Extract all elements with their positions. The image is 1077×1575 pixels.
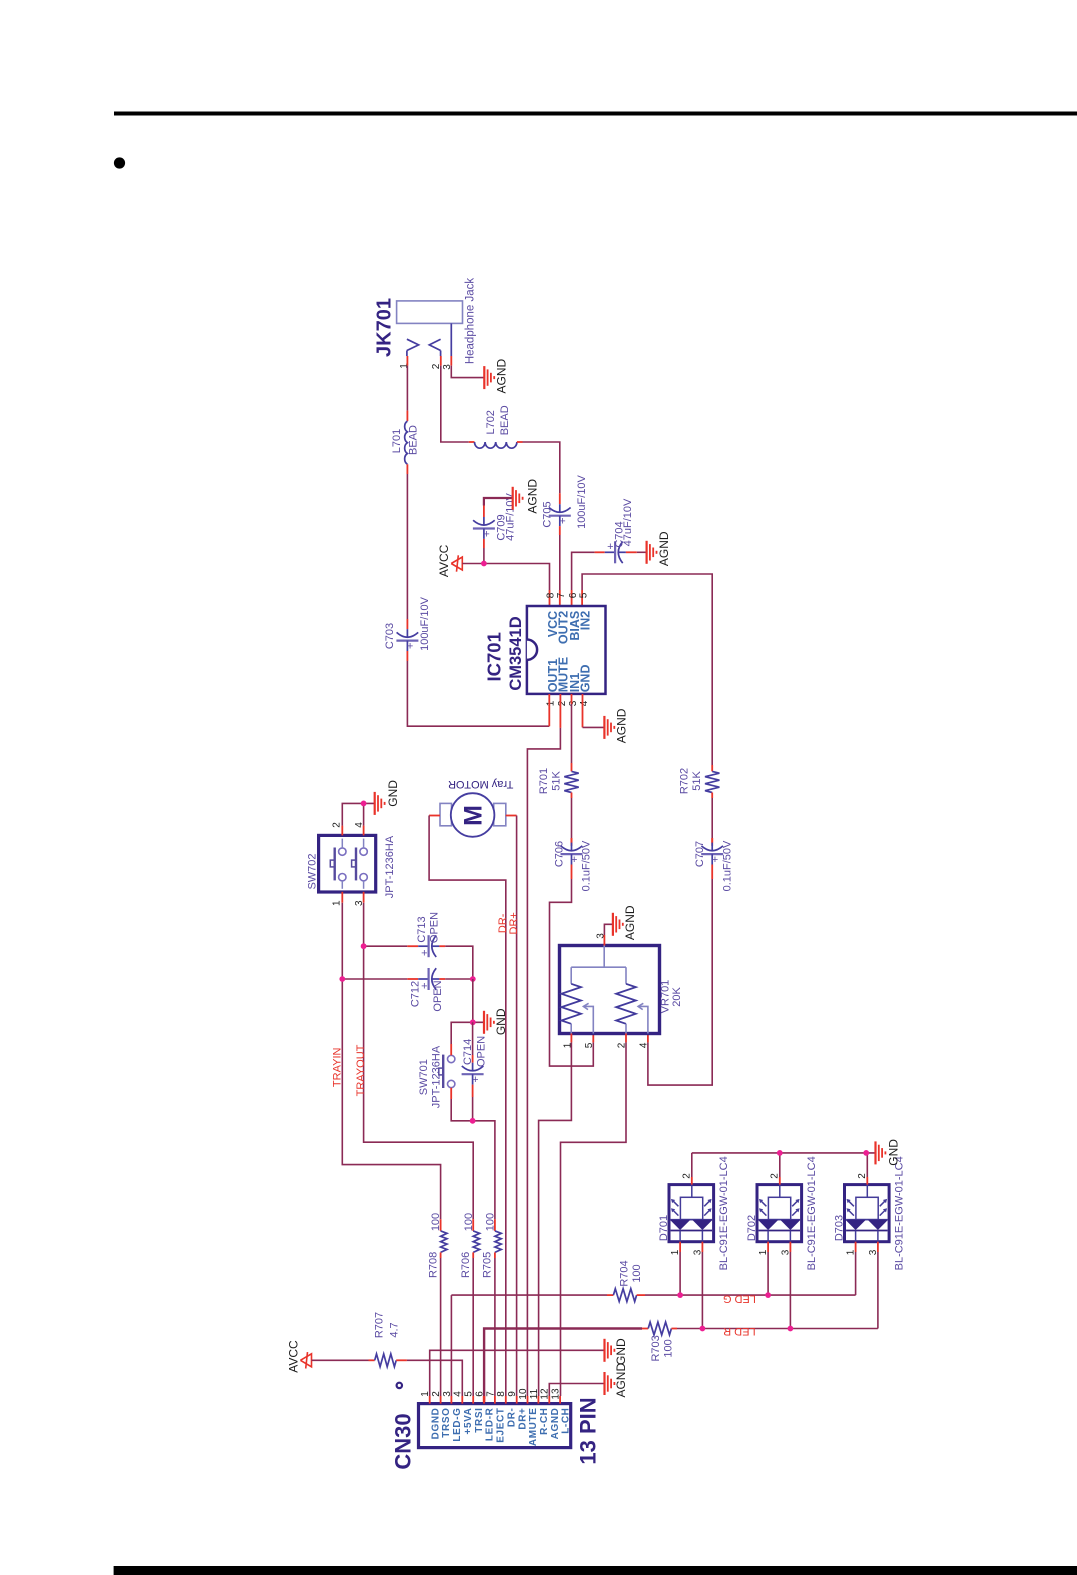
svg-text:SW702: SW702 xyxy=(307,853,319,889)
wire C703 to IC pin1 xyxy=(407,661,549,726)
svg-text:BL-C91E-EGW-01-LC4: BL-C91E-EGW-01-LC4 xyxy=(894,1156,906,1270)
IC pin4 to AGND xyxy=(582,694,584,727)
LED D703 BL-C91E-EGW-01-LC4 xyxy=(845,1185,890,1242)
CN30 pin 9 DR+ xyxy=(516,1396,518,1404)
svg-text:DR+: DR+ xyxy=(508,912,520,934)
LED cathode bus to GND xyxy=(692,1152,875,1154)
svg-text:LED-G: LED-G xyxy=(452,1408,463,1442)
wire jack pin1 down xyxy=(406,366,408,411)
svg-text:C713: C713 xyxy=(416,916,428,942)
svg-text:2: 2 xyxy=(770,1173,781,1179)
svg-text:AVCC: AVCC xyxy=(437,544,451,577)
capacitor C705 100uF/10V xyxy=(559,493,561,504)
svg-text:1: 1 xyxy=(332,900,343,906)
svg-text:GND: GND xyxy=(886,1139,900,1166)
connector CN30 13 PIN xyxy=(419,1404,571,1448)
svg-text:D701: D701 xyxy=(658,1215,670,1241)
svg-text:1: 1 xyxy=(846,1249,857,1255)
wire C707 to VR701 pin4 xyxy=(711,872,713,879)
svg-text:TRAYIN: TRAYIN xyxy=(332,1047,344,1087)
LED pin wires xyxy=(691,1177,693,1185)
CN30 pin 10 AMUTE xyxy=(527,1396,529,1404)
svg-text:3: 3 xyxy=(781,1249,792,1255)
potentiometer VR701 20K xyxy=(560,946,660,1034)
wire pin1 DGND to GND xyxy=(430,1350,604,1396)
svg-text:3: 3 xyxy=(568,700,579,706)
svg-text:IC701: IC701 xyxy=(484,632,505,681)
wire R702 to C707 xyxy=(711,798,713,838)
VR701 wipers xyxy=(583,1006,593,1033)
svg-text:L-CH: L-CH xyxy=(561,1408,572,1434)
svg-text:R701: R701 xyxy=(538,768,550,794)
svg-text:100uF/10V: 100uF/10V xyxy=(576,474,588,528)
svg-text:+: + xyxy=(407,640,413,652)
svg-text:100: 100 xyxy=(631,1264,643,1282)
svg-text:C707: C707 xyxy=(694,841,706,867)
svg-text:CN30: CN30 xyxy=(391,1413,416,1469)
wire jack pin2 down to L702 xyxy=(441,366,469,442)
ground GND (LEDs) xyxy=(874,1141,876,1164)
svg-text:100uF/10V: 100uF/10V xyxy=(419,596,431,650)
svg-text:TRSO: TRSO xyxy=(441,1408,452,1438)
svg-text:6: 6 xyxy=(568,592,579,598)
svg-text:7: 7 xyxy=(556,592,567,598)
svg-text:EJECT: EJECT xyxy=(496,1408,507,1443)
resistor R702 51K xyxy=(705,771,719,792)
SW702 pin3 TRAYOUT down xyxy=(363,892,365,903)
svg-text:51K: 51K xyxy=(551,771,563,791)
wire LED-G pin3 + R704 xyxy=(450,1295,452,1396)
svg-text:100: 100 xyxy=(485,1213,497,1231)
svg-text:AVCC: AVCC xyxy=(286,1340,300,1373)
svg-text:13: 13 xyxy=(551,1388,562,1400)
IC pin1 stub xyxy=(548,694,550,726)
wire IC pin6 to C704 xyxy=(571,590,573,606)
capacitor C714 OPEN xyxy=(472,1055,474,1063)
svg-text:AGND: AGND xyxy=(657,531,671,566)
op-amp IC701 CM3541D xyxy=(527,606,606,694)
svg-text:47uF/10V: 47uF/10V xyxy=(622,498,634,546)
svg-text:5: 5 xyxy=(579,592,590,598)
ground AGND (IC701 pin4) xyxy=(603,716,605,739)
wire TRAYOUT to C713 xyxy=(364,945,408,947)
svg-text:DGND: DGND xyxy=(430,1408,441,1440)
svg-text:TRSI: TRSI xyxy=(474,1408,485,1433)
IC pin3 wire xyxy=(571,694,573,704)
CN30 pin 4 +5VA xyxy=(461,1396,463,1404)
svg-text:8: 8 xyxy=(546,592,557,598)
CN30 pin 6 LED-R xyxy=(483,1396,485,1404)
svg-text:TRAYOUT: TRAYOUT xyxy=(355,1044,367,1096)
VR701 pin3 to AGND xyxy=(603,935,605,946)
ground GND (SW702) xyxy=(374,792,376,815)
CN30 pin 2 TRSO xyxy=(440,1396,442,1404)
svg-text:LED G: LED G xyxy=(723,1293,756,1305)
svg-text:100: 100 xyxy=(463,1213,475,1231)
power AVCC (bottom) xyxy=(300,1354,311,1367)
svg-text:2: 2 xyxy=(557,700,568,706)
wire C713 to junction xyxy=(445,946,473,979)
VR701 internal network xyxy=(603,946,605,968)
wire caps to GND node xyxy=(472,979,474,1022)
svg-text:JPT-1236HA: JPT-1236HA xyxy=(384,835,396,898)
svg-text:4: 4 xyxy=(453,1391,464,1397)
wire IC pin2 MUTE to CN30 pin10 xyxy=(559,694,561,728)
wire IC pin5 to R702 xyxy=(581,590,583,606)
ground AGND (C709) xyxy=(512,487,514,510)
capacitor C707 0.1uF/50V xyxy=(711,838,713,843)
svg-text:6: 6 xyxy=(474,1391,485,1397)
CN30 pin 12 AGND xyxy=(548,1396,550,1404)
svg-text:+: + xyxy=(421,948,427,960)
capacitor C703 100uF/10V xyxy=(406,619,408,629)
svg-text:100: 100 xyxy=(662,1339,674,1357)
SW701 bottom + C714 to R705 xyxy=(450,1088,452,1099)
svg-text:R706: R706 xyxy=(460,1252,472,1278)
svg-text:GND: GND xyxy=(494,1008,508,1035)
resistor R706 100 xyxy=(472,1219,474,1231)
wire R707 to pin4 xyxy=(407,1360,462,1396)
svg-text:C714: C714 xyxy=(462,1039,474,1065)
svg-text:IN2: IN2 xyxy=(579,611,593,631)
svg-text:C703: C703 xyxy=(384,623,396,649)
svg-text:AMUTE: AMUTE xyxy=(528,1408,539,1447)
svg-text:DR-: DR- xyxy=(506,1408,517,1428)
svg-text:AGND: AGND xyxy=(615,708,629,743)
svg-text:9: 9 xyxy=(507,1391,518,1397)
bullet xyxy=(114,157,125,168)
resistor R704 100 xyxy=(613,1289,636,1302)
svg-text:47uF/10V: 47uF/10V xyxy=(504,492,516,540)
SW701 top to GND xyxy=(450,1044,452,1055)
svg-text:DR-: DR- xyxy=(497,913,509,933)
ground GND (CN30) xyxy=(603,1339,605,1362)
CN30 pin 8 DR- xyxy=(505,1396,507,1404)
capacitor C712 OPEN xyxy=(407,978,418,980)
wire pin12 to AGND xyxy=(549,1384,604,1397)
resistor R707 4.7 xyxy=(375,1354,397,1367)
svg-text:AGND: AGND xyxy=(614,1363,628,1398)
svg-text:SW701: SW701 xyxy=(418,1059,430,1095)
svg-text:R705: R705 xyxy=(482,1252,494,1278)
wire LED-R pin6 + R703 xyxy=(483,1396,486,1404)
LED pin wires xyxy=(866,1177,868,1185)
svg-text:DR+: DR+ xyxy=(517,1408,528,1430)
CN30 pin 13 L-CH xyxy=(559,1396,561,1404)
svg-text:R708: R708 xyxy=(427,1252,439,1278)
svg-text:5: 5 xyxy=(464,1391,475,1397)
svg-text:GND: GND xyxy=(614,1338,628,1365)
svg-text:+: + xyxy=(712,854,718,866)
switch SW702 JPT-1236HA xyxy=(319,835,376,892)
resistor R701 51K xyxy=(564,771,578,792)
svg-text:R-CH: R-CH xyxy=(539,1408,550,1435)
inductor L702 BEAD xyxy=(475,442,517,448)
wire C709 top to AGND xyxy=(484,498,512,506)
pin stubs JK701 xyxy=(406,356,408,366)
svg-text:51K: 51K xyxy=(691,771,703,791)
resistor R705 100 xyxy=(494,1219,496,1231)
svg-text:5: 5 xyxy=(584,1042,595,1048)
svg-text:1: 1 xyxy=(546,700,557,706)
svg-text:JPT-1236HA: JPT-1236HA xyxy=(430,1045,442,1108)
wire C712 to junction xyxy=(445,978,473,980)
svg-text:1: 1 xyxy=(420,1391,431,1397)
tray motor M xyxy=(440,803,452,825)
svg-text:100: 100 xyxy=(430,1213,442,1231)
wire AVCC to IC pin8 xyxy=(462,564,549,591)
svg-text:2: 2 xyxy=(857,1173,868,1179)
CN30 pin 11 R-CH xyxy=(537,1396,539,1404)
switch SW701 JPT-1236HA xyxy=(448,1055,455,1062)
wire jack pin3 to AGND xyxy=(451,366,483,378)
svg-text:JK701: JK701 xyxy=(373,298,395,357)
svg-text:7: 7 xyxy=(485,1391,496,1397)
svg-text:OPEN: OPEN xyxy=(432,980,444,1011)
wire L702 to C705/pin7 xyxy=(523,442,560,493)
wire R701 to C706 xyxy=(571,798,573,838)
svg-text:LED-R: LED-R xyxy=(485,1407,496,1441)
wire L701 to C703 xyxy=(406,474,408,619)
svg-text:4: 4 xyxy=(639,1042,650,1048)
svg-text:BL-C91E-EGW-01-LC4: BL-C91E-EGW-01-LC4 xyxy=(806,1156,818,1270)
svg-text:+: + xyxy=(421,980,427,992)
svg-text:VR701: VR701 xyxy=(660,980,672,1014)
svg-text:3: 3 xyxy=(868,1249,879,1255)
SW702 pin2/4 to GND xyxy=(341,826,343,836)
svg-text:13 PIN: 13 PIN xyxy=(576,1397,601,1464)
svg-text:2: 2 xyxy=(682,1173,693,1179)
junction dots LED G / LED R xyxy=(677,1292,683,1298)
CN30 pin 5 TRSI xyxy=(472,1396,474,1404)
svg-text:C706: C706 xyxy=(554,841,566,867)
top rule xyxy=(114,112,1077,116)
CN30 polarity mark xyxy=(397,1383,402,1388)
SW702 pin1 TRAYIN down xyxy=(341,892,343,903)
CN30 pin 3 LED-G xyxy=(450,1396,452,1404)
ground AGND (VR701) xyxy=(612,913,614,936)
svg-text:4.7: 4.7 xyxy=(389,1322,401,1337)
ground AGND (CN30) xyxy=(603,1372,605,1395)
svg-text:D703: D703 xyxy=(834,1215,846,1241)
svg-text:R703: R703 xyxy=(650,1335,662,1361)
svg-text:+: + xyxy=(472,1074,478,1086)
svg-text:AGND: AGND xyxy=(495,358,509,393)
motor stubs xyxy=(429,815,440,817)
wire C706 to VR701 pin5 xyxy=(571,872,573,879)
svg-text:2: 2 xyxy=(332,822,343,828)
CN30 pin 7 EJECT xyxy=(494,1396,496,1404)
svg-text:0.1uF/50V: 0.1uF/50V xyxy=(721,840,733,891)
ground AGND (jack) xyxy=(483,366,485,389)
svg-text:LED R: LED R xyxy=(723,1325,755,1337)
resistor R708 100 xyxy=(440,1219,442,1231)
svg-text:1: 1 xyxy=(670,1249,681,1255)
svg-text:0.1uF/50V: 0.1uF/50V xyxy=(581,840,593,891)
capacitor C706 0.1uF/50V xyxy=(571,838,573,843)
CN30 pin 1 DGND xyxy=(429,1396,431,1404)
svg-text:8: 8 xyxy=(496,1391,507,1397)
svg-text:+: + xyxy=(559,516,565,528)
svg-text:R707: R707 xyxy=(374,1312,386,1338)
capacitor C713 OPEN xyxy=(407,945,418,947)
svg-text:C705: C705 xyxy=(541,501,553,527)
svg-text:GND: GND xyxy=(386,780,400,807)
svg-text:Headphone Jack: Headphone Jack xyxy=(464,278,476,365)
wire TRAYIN to C712 xyxy=(342,978,407,980)
svg-text:+5VA: +5VA xyxy=(463,1408,474,1435)
JK701 pin 3 lead xyxy=(450,323,452,356)
svg-text:L702: L702 xyxy=(485,410,497,434)
svg-text:+: + xyxy=(483,528,489,540)
svg-text:+: + xyxy=(571,854,577,866)
svg-text:12: 12 xyxy=(540,1388,551,1400)
svg-text:BEAD: BEAD xyxy=(408,425,420,455)
svg-text:4: 4 xyxy=(579,700,590,706)
JK701 pin 2 contact xyxy=(429,339,440,350)
ground GND (SW701) xyxy=(483,1011,485,1034)
svg-text:1: 1 xyxy=(758,1249,769,1255)
VR701 pin1 to R-CH xyxy=(570,1034,572,1043)
svg-text:R704: R704 xyxy=(618,1260,630,1286)
svg-text:M: M xyxy=(460,805,488,826)
svg-text:BEAD: BEAD xyxy=(499,405,511,435)
svg-text:11: 11 xyxy=(529,1388,540,1399)
svg-text:GND: GND xyxy=(579,665,593,693)
svg-text:OPEN: OPEN xyxy=(475,1036,487,1067)
JK701 pin 1 contact xyxy=(407,339,419,350)
inductor L701 BEAD xyxy=(405,421,408,464)
LED pin wires xyxy=(779,1177,781,1185)
capacitor C704 47uF/10V xyxy=(595,551,605,553)
svg-text:BL-C91E-EGW-01-LC4: BL-C91E-EGW-01-LC4 xyxy=(718,1156,730,1270)
svg-text:D702: D702 xyxy=(746,1215,758,1241)
svg-text:10: 10 xyxy=(518,1388,529,1400)
junction AVCC/C709 xyxy=(481,561,487,567)
svg-text:3: 3 xyxy=(442,1391,453,1397)
wire C705 to IC pin7 xyxy=(559,535,561,590)
bottom rule xyxy=(114,1566,1077,1575)
wire motor right to DR+ xyxy=(516,816,518,1397)
VR701 pin2 to L-CH xyxy=(625,1034,627,1043)
LED D702 BL-C91E-EGW-01-LC4 xyxy=(757,1185,802,1242)
wire junction to C714 xyxy=(472,1022,474,1055)
svg-text:AGND: AGND xyxy=(550,1408,561,1440)
ground AGND (C704) xyxy=(645,541,647,564)
resistor R703 100 xyxy=(648,1322,671,1335)
svg-text:CM3541D: CM3541D xyxy=(507,616,525,690)
svg-text:3: 3 xyxy=(693,1249,704,1255)
svg-text:R702: R702 xyxy=(679,768,691,794)
svg-text:2: 2 xyxy=(431,1391,442,1397)
svg-text:L701: L701 xyxy=(391,429,403,453)
svg-text:AGND: AGND xyxy=(526,479,540,514)
svg-text:20K: 20K xyxy=(671,987,683,1007)
svg-text:C712: C712 xyxy=(410,981,422,1007)
wire motor left to DR- xyxy=(429,816,506,1397)
connector JK701 headphone jack xyxy=(397,301,463,324)
capacitor C709 47uF/10V xyxy=(483,506,485,518)
LED D701 BL-C91E-EGW-01-LC4 xyxy=(669,1185,714,1242)
wire C704 to AGND xyxy=(637,551,646,553)
svg-text:AGND: AGND xyxy=(623,905,637,940)
svg-text:Tray MOTOR: Tray MOTOR xyxy=(448,778,513,790)
svg-text:OPEN: OPEN xyxy=(429,912,441,943)
wire C709 bottom to AVCC node xyxy=(483,548,485,564)
power AVCC (top) xyxy=(451,557,462,570)
